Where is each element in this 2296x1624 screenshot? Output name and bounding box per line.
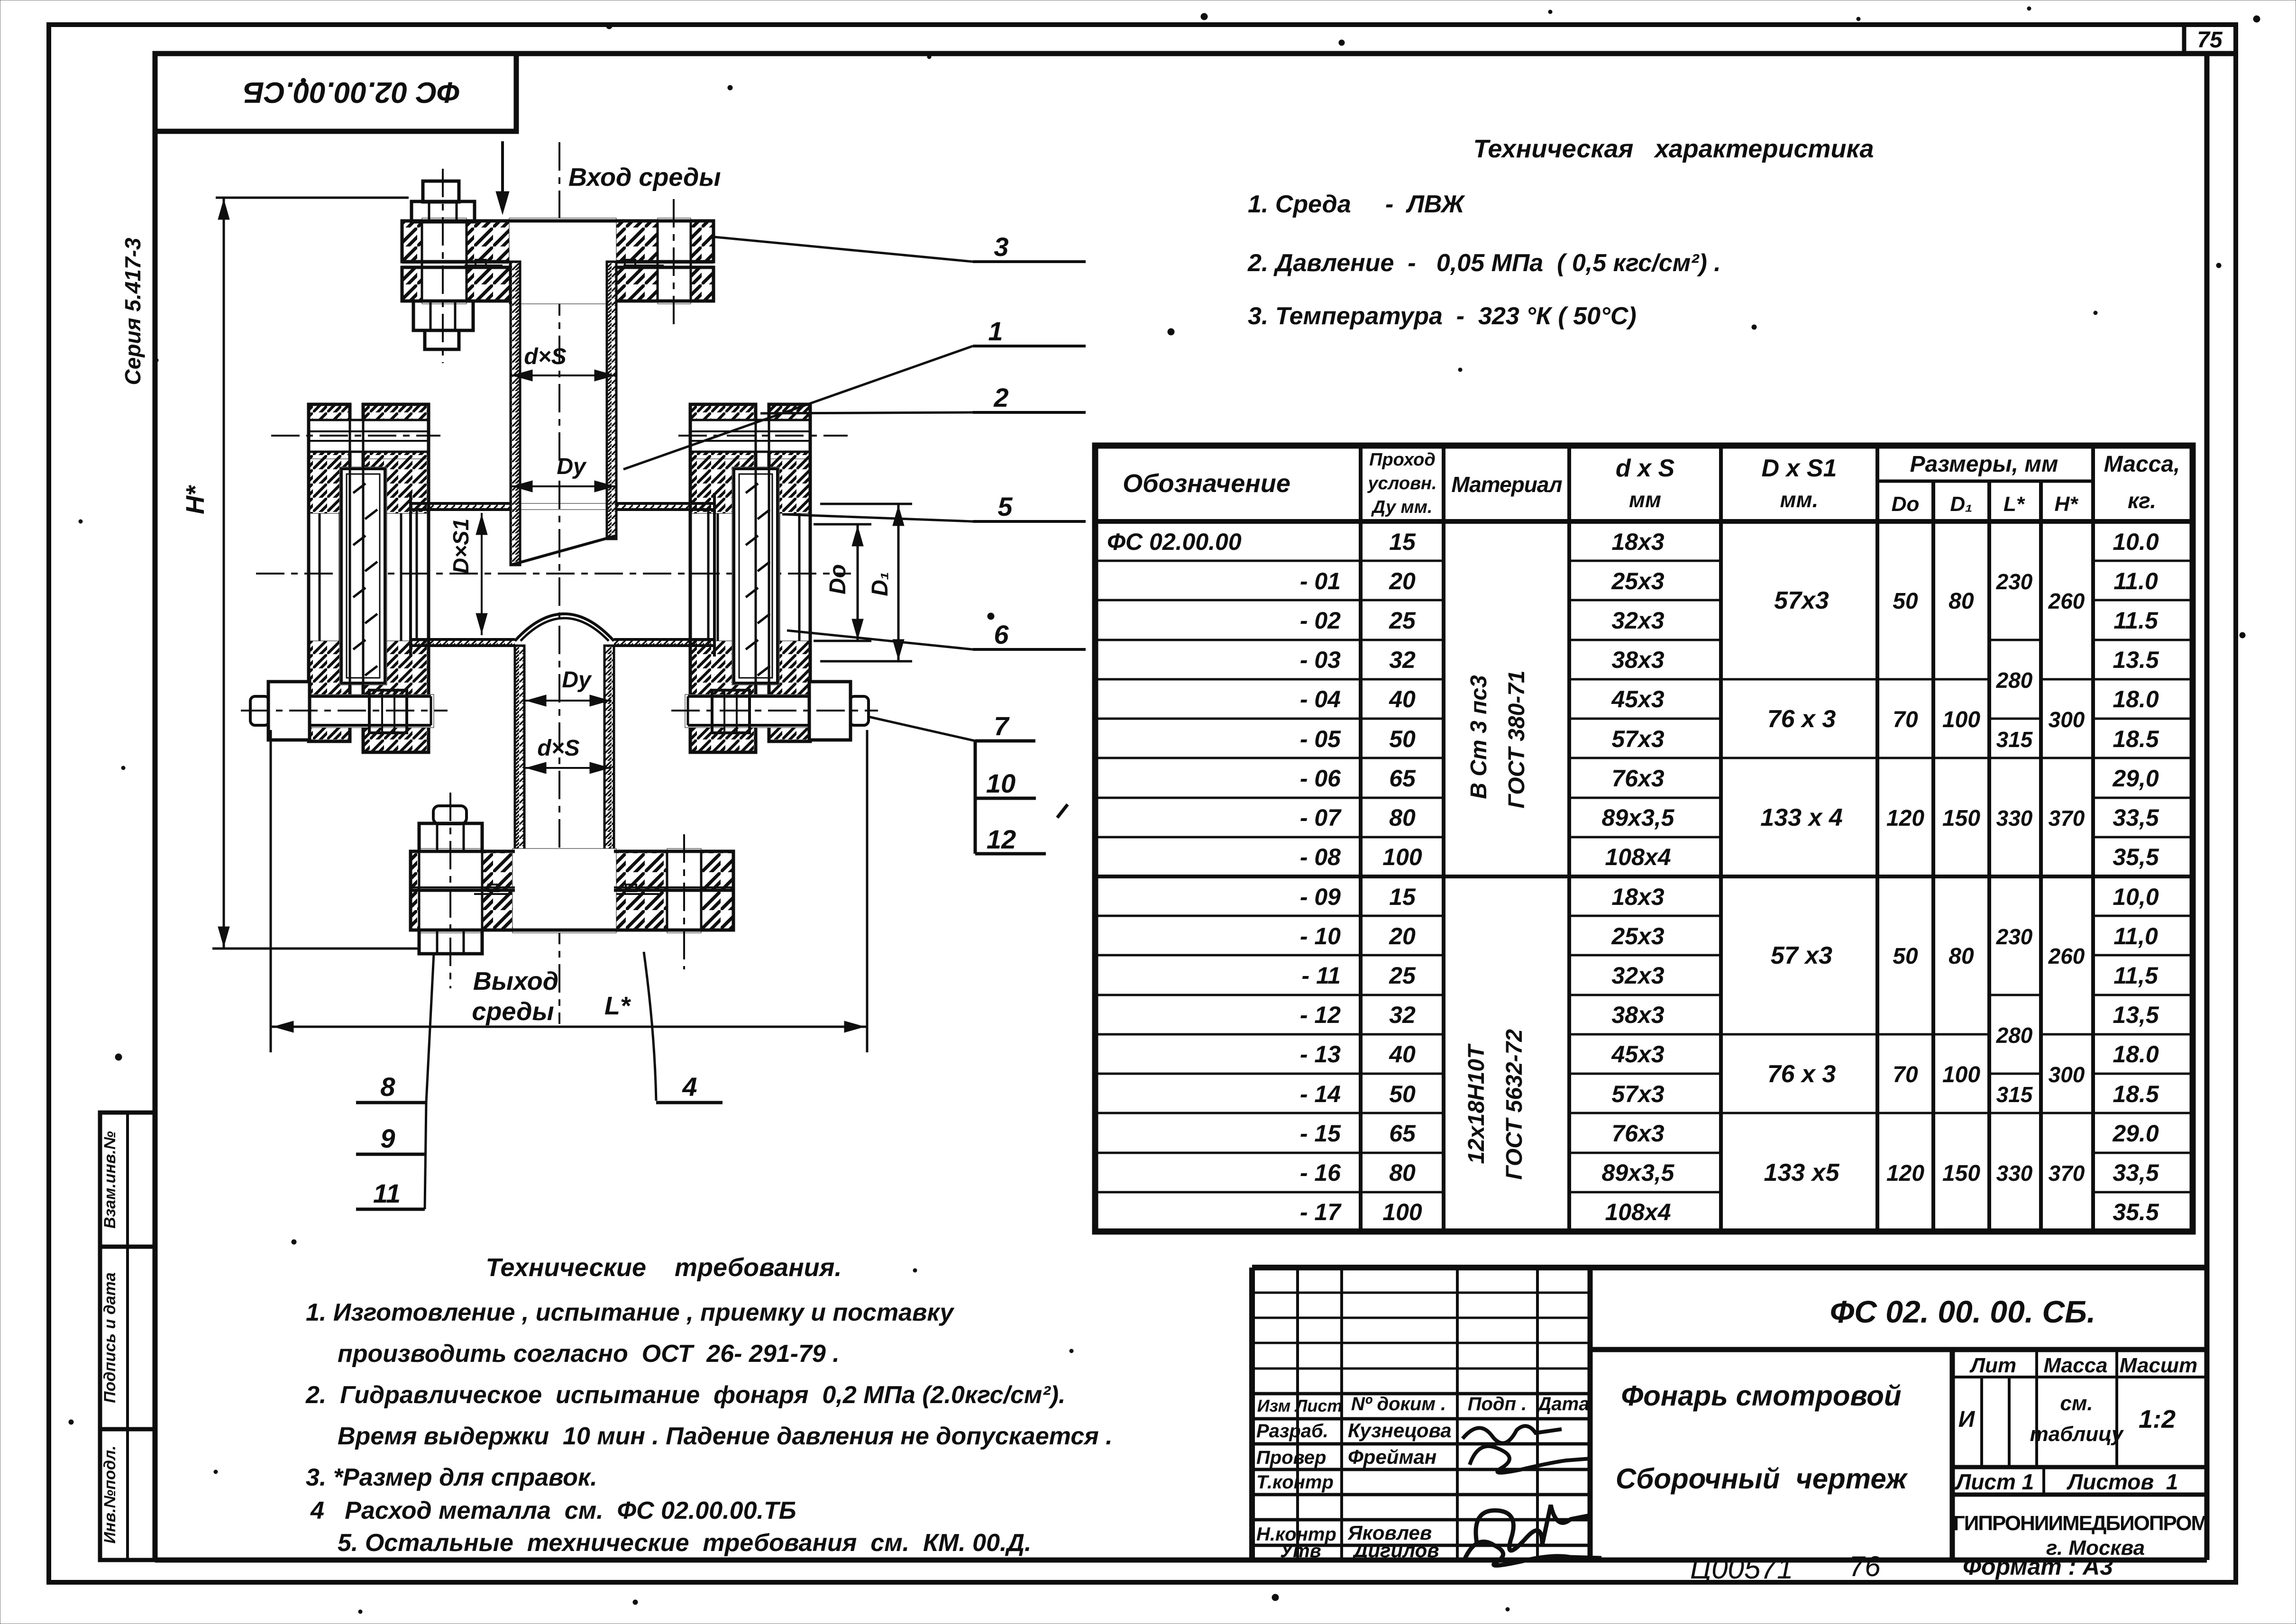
svg-text:50: 50 bbox=[1893, 589, 1918, 614]
svg-text:Разраб.: Разраб. bbox=[1256, 1421, 1328, 1442]
tech char line 1 bbox=[1248, 191, 1465, 218]
left cover flange (hatched bar) bbox=[309, 404, 350, 741]
svg-text:L*: L* bbox=[2003, 493, 2025, 516]
svg-text:33,5: 33,5 bbox=[2113, 1159, 2159, 1186]
svg-text:Лист: Лист bbox=[1294, 1396, 1343, 1415]
svg-text:150: 150 bbox=[1942, 806, 1980, 831]
svg-text:Выход: Выход bbox=[473, 967, 558, 995]
tech req line 7 bbox=[338, 1529, 1031, 1557]
svg-text:65: 65 bbox=[1389, 1120, 1416, 1147]
svg-text:57x3: 57x3 bbox=[1774, 587, 1829, 614]
top flange gasket lines bbox=[402, 260, 713, 266]
right glass window bbox=[732, 467, 779, 685]
svg-text:18.0: 18.0 bbox=[2113, 686, 2159, 712]
svg-text:45x3: 45x3 bbox=[1611, 1041, 1664, 1067]
svg-text:- 08: - 08 bbox=[1300, 844, 1341, 870]
svg-text:- 04: - 04 bbox=[1300, 686, 1341, 712]
svg-text:35,5: 35,5 bbox=[2113, 844, 2159, 870]
right side bolt through glass flange bbox=[671, 682, 878, 740]
svg-text:18.5: 18.5 bbox=[2113, 1081, 2159, 1107]
svg-text:75: 75 bbox=[2197, 27, 2223, 53]
svg-text:45x3: 45x3 bbox=[1611, 686, 1664, 712]
baffle dome above lower pipe bbox=[515, 614, 614, 641]
svg-text:таблицу: таблицу bbox=[2030, 1423, 2124, 1446]
table header labels bbox=[1123, 450, 2180, 517]
top flange upper ring (hatched, pos.3 area) bbox=[402, 218, 713, 304]
title block lit/massa/scale and sheet cells bbox=[1955, 1354, 2197, 1494]
svg-text:мм.: мм. bbox=[1780, 487, 1819, 512]
svg-text:18x3: 18x3 bbox=[1611, 529, 1664, 555]
svg-text:80: 80 bbox=[1948, 944, 1974, 969]
bottom flange rings (hatched) bbox=[411, 848, 733, 933]
tech requirements heading bbox=[486, 1253, 842, 1282]
svg-text:Утв: Утв bbox=[1280, 1541, 1321, 1561]
signature Кузнецова bbox=[1463, 1426, 1562, 1443]
svg-text:3. *Размер для справок.: 3. *Размер для справок. bbox=[306, 1464, 597, 1491]
svg-text:20: 20 bbox=[1389, 568, 1416, 594]
svg-text:ФС 02. 00. 00. СБ.: ФС 02. 00. 00. СБ. bbox=[1830, 1294, 2096, 1329]
svg-text:100: 100 bbox=[1942, 707, 1980, 732]
svg-text:Dо: Dо bbox=[825, 564, 851, 594]
svg-text:25x3: 25x3 bbox=[1611, 568, 1664, 594]
svg-text:Подпись и дата: Подпись и дата bbox=[101, 1272, 119, 1403]
top bolt M (left) bbox=[412, 181, 475, 349]
svg-text:Dо: Dо bbox=[1892, 493, 1920, 516]
svg-text:65: 65 bbox=[1389, 765, 1416, 792]
dim L* (overall length, bottom) bbox=[271, 730, 867, 1052]
svg-text:Nº доким .: Nº доким . bbox=[1351, 1394, 1446, 1414]
parts table grid bbox=[1095, 446, 2193, 1232]
dim dxS upper bbox=[511, 344, 615, 381]
svg-text:57x3: 57x3 bbox=[1611, 1081, 1664, 1107]
svg-text:13.5: 13.5 bbox=[2113, 647, 2159, 673]
svg-text:- 10: - 10 bbox=[1300, 923, 1341, 949]
bottom flange gasket lines bbox=[411, 885, 733, 894]
body horizontal pipe walls bbox=[411, 493, 714, 657]
svg-text:10: 10 bbox=[986, 768, 1015, 798]
svg-text:Подп .: Подп . bbox=[1468, 1394, 1527, 1414]
svg-text:57x3: 57x3 bbox=[1611, 726, 1664, 752]
svg-text:кг.: кг. bbox=[2128, 488, 2156, 513]
svg-text:18.5: 18.5 bbox=[2113, 726, 2159, 752]
svg-text:100: 100 bbox=[1942, 1062, 1980, 1087]
svg-text:370: 370 bbox=[2049, 1161, 2085, 1186]
svg-text:- 15: - 15 bbox=[1300, 1120, 1341, 1147]
svg-text:Лит: Лит bbox=[1969, 1354, 2016, 1377]
svg-text:57 x3: 57 x3 bbox=[1771, 942, 1832, 969]
svg-text:Т.контр: Т.контр bbox=[1256, 1472, 1334, 1493]
svg-text:5. Остальные технические тре: 5. Остальные технические требования см. … bbox=[338, 1529, 1031, 1557]
svg-text:- 09: - 09 bbox=[1300, 884, 1341, 910]
svg-text:3: 3 bbox=[994, 232, 1008, 262]
outlet label bbox=[472, 967, 558, 1026]
svg-text:29.0: 29.0 bbox=[2112, 1120, 2159, 1147]
svg-text:Ц00571: Ц00571 bbox=[1690, 1552, 1793, 1585]
svg-text:Формат : А3: Формат : А3 bbox=[1963, 1553, 2113, 1580]
upper pipe walls bbox=[511, 262, 616, 565]
svg-text:- 12: - 12 bbox=[1300, 1002, 1341, 1028]
callout 1 (inlet pipe) bbox=[623, 316, 1086, 469]
svg-text:- 05: - 05 bbox=[1300, 726, 1341, 752]
svg-text:315: 315 bbox=[1996, 1082, 2033, 1107]
svg-text:В Ст 3 пс3: В Ст 3 пс3 bbox=[1466, 675, 1491, 799]
svg-text:L*: L* bbox=[604, 992, 631, 1020]
callouts 8,9,11 ladder (bottom bolt set) bbox=[356, 954, 434, 1209]
svg-text:условн.: условн. bbox=[1367, 474, 1436, 493]
tech req line 2 bbox=[338, 1340, 840, 1368]
designation ФС 02.00.00.СБ. bbox=[1830, 1294, 2096, 1329]
svg-text:315: 315 bbox=[1996, 727, 2033, 752]
svg-text:ГИПРОНИИМЕДБИОПРОМ: ГИПРОНИИМЕДБИОПРОМ bbox=[1953, 1512, 2207, 1535]
svg-text:12: 12 bbox=[987, 824, 1016, 854]
svg-text:15: 15 bbox=[1389, 529, 1416, 555]
svg-text:230: 230 bbox=[1996, 924, 2033, 949]
bottom flange right hole axis bbox=[683, 834, 685, 969]
svg-text:Провер: Провер bbox=[1256, 1447, 1326, 1468]
signature Яковлев bbox=[1476, 1505, 1590, 1551]
left stack top gasket band + bolt hole axis bbox=[271, 404, 440, 752]
svg-text:300: 300 bbox=[2049, 707, 2085, 732]
svg-text:11.5: 11.5 bbox=[2113, 607, 2159, 634]
svg-text:производить согласно ОСТ 26-: производить согласно ОСТ 26- 291-79 . bbox=[338, 1340, 840, 1368]
svg-text:- 07: - 07 bbox=[1300, 804, 1342, 831]
svg-text:Масса: Масса bbox=[2043, 1354, 2107, 1377]
svg-text:50: 50 bbox=[1389, 726, 1416, 752]
svg-text:10.0: 10.0 bbox=[2113, 529, 2159, 555]
top-left stamp box (rotated designation) bbox=[155, 54, 516, 131]
svg-text:300: 300 bbox=[2049, 1062, 2085, 1087]
svg-text:35.5: 35.5 bbox=[2113, 1199, 2159, 1225]
svg-text:40: 40 bbox=[1389, 1041, 1416, 1067]
dim Dy lower bbox=[524, 667, 612, 706]
dim Dy upper bbox=[511, 454, 615, 492]
left glass window bbox=[339, 467, 387, 685]
callout 4 (bottom flange leader) bbox=[644, 952, 723, 1103]
tech req line 4 bbox=[338, 1423, 1113, 1450]
svg-text:9: 9 bbox=[380, 1123, 395, 1153]
title block grid bbox=[1252, 1268, 2207, 1560]
callouts 7,10,12 ladder (side bolt set) bbox=[869, 711, 1068, 854]
svg-text:H*: H* bbox=[181, 484, 210, 514]
inlet label and arrow bbox=[496, 141, 721, 214]
tech req line 3 bbox=[305, 1381, 1065, 1409]
lower pipe walls bbox=[505, 646, 623, 890]
bottom bolt (left) bbox=[419, 806, 482, 954]
svg-text:80: 80 bbox=[1389, 1159, 1416, 1186]
svg-text:11: 11 bbox=[373, 1178, 401, 1208]
svg-text:13,5: 13,5 bbox=[2113, 1002, 2159, 1028]
svg-text:см.: см. bbox=[2060, 1392, 2093, 1415]
svg-text:D x S1: D x S1 bbox=[1762, 455, 1837, 482]
dim dxS lower bbox=[524, 736, 612, 774]
svg-text:25: 25 bbox=[1389, 962, 1416, 989]
svg-text:- 17: - 17 bbox=[1300, 1199, 1342, 1225]
svg-text:Проход: Проход bbox=[1369, 450, 1436, 470]
dim D1 (right) bbox=[820, 504, 912, 661]
svg-text:33,5: 33,5 bbox=[2113, 804, 2159, 831]
svg-text:- 13: - 13 bbox=[1300, 1041, 1341, 1067]
svg-text:H*: H* bbox=[2055, 493, 2079, 516]
dim DxS1 vertical inside body bbox=[448, 513, 487, 635]
svg-text:32x3: 32x3 bbox=[1611, 962, 1664, 989]
svg-text:Время выдержки 10 мин . Паден: Время выдержки 10 мин . Падение давления… bbox=[338, 1423, 1113, 1450]
svg-text:Дигилов: Дигилов bbox=[1352, 1539, 1439, 1561]
svg-text:70: 70 bbox=[1893, 1062, 1918, 1087]
svg-text:среды: среды bbox=[472, 997, 554, 1026]
svg-text:25: 25 bbox=[1389, 607, 1416, 634]
svg-text:d x S: d x S bbox=[1616, 455, 1675, 482]
svg-text:6: 6 bbox=[994, 620, 1009, 649]
svg-text:мм: мм bbox=[1629, 487, 1661, 512]
svg-text:38x3: 38x3 bbox=[1611, 647, 1664, 673]
svg-text:260: 260 bbox=[2048, 944, 2085, 968]
svg-text:ФС 02.00.00.СБ: ФС 02.00.00.СБ bbox=[243, 76, 460, 109]
svg-text:ФС 02.00.00: ФС 02.00.00 bbox=[1107, 529, 1242, 555]
dim H* (overall height, left) bbox=[181, 198, 419, 949]
svg-text:Лист 1: Лист 1 bbox=[1955, 1469, 2034, 1494]
svg-text:Дата: Дата bbox=[1537, 1394, 1590, 1414]
svg-text:150: 150 bbox=[1942, 1161, 1980, 1186]
left side bolt through glass flange bbox=[241, 682, 448, 740]
svg-text:- 01: - 01 bbox=[1300, 568, 1341, 594]
organization bbox=[1953, 1512, 2207, 1560]
svg-text:11,5: 11,5 bbox=[2113, 962, 2159, 989]
svg-text:5: 5 bbox=[997, 492, 1013, 521]
svg-text:260: 260 bbox=[2048, 589, 2085, 613]
svg-text:D₁: D₁ bbox=[868, 572, 893, 596]
material rows 1-9 bbox=[1466, 670, 1529, 808]
callout 5 (glass) bbox=[782, 492, 1086, 521]
svg-text:1. Изготовление , испытание ,: 1. Изготовление , испытание , приемку и … bbox=[306, 1299, 955, 1326]
label Инв.№подл. bbox=[101, 1445, 119, 1543]
svg-text:Материал: Материал bbox=[1451, 472, 1562, 497]
svg-text:20: 20 bbox=[1389, 923, 1416, 949]
svg-text:Инв.№подл.: Инв.№подл. bbox=[101, 1445, 119, 1543]
svg-text:Фонарь смотровой: Фонарь смотровой bbox=[1621, 1380, 1901, 1412]
svg-text:133 x5: 133 x5 bbox=[1764, 1159, 1839, 1186]
label Подпись и дата bbox=[101, 1272, 119, 1403]
svg-text:76 x 3: 76 x 3 bbox=[1767, 705, 1836, 733]
svg-text:100: 100 bbox=[1382, 844, 1422, 870]
tech characteristics heading bbox=[1473, 135, 1874, 163]
svg-text:8: 8 bbox=[380, 1072, 395, 1102]
material rows 10-18 bbox=[1464, 1029, 1527, 1180]
svg-text:100: 100 bbox=[1382, 1199, 1422, 1225]
tech req line 6 bbox=[310, 1497, 796, 1524]
callout 6 (gasket) bbox=[787, 620, 1086, 649]
svg-text:15: 15 bbox=[1389, 884, 1416, 910]
svg-text:Кузнецова: Кузнецова bbox=[1348, 1419, 1452, 1442]
tech req line 5 bbox=[306, 1464, 597, 1491]
page number box 75 bbox=[2184, 27, 2223, 54]
left margin strip boxes bbox=[100, 1113, 155, 1560]
svg-text:18.0: 18.0 bbox=[2113, 1041, 2159, 1067]
series label bbox=[120, 209, 154, 417]
svg-text:2. Гидравлическое испытание: 2. Гидравлическое испытание фонаря 0,2 М… bbox=[305, 1381, 1065, 1409]
table merged dimension values bbox=[1760, 569, 2085, 1186]
svg-text:- 03: - 03 bbox=[1300, 647, 1341, 673]
svg-text:29,0: 29,0 bbox=[2112, 765, 2159, 792]
svg-text:- 02: - 02 bbox=[1300, 607, 1341, 634]
svg-text:1:2: 1:2 bbox=[2139, 1405, 2176, 1433]
svg-text:11.0: 11.0 bbox=[2113, 568, 2158, 594]
svg-text:76x3: 76x3 bbox=[1611, 1120, 1664, 1147]
svg-text:32: 32 bbox=[1389, 1002, 1416, 1028]
svg-text:120: 120 bbox=[1886, 1161, 1924, 1186]
svg-text:- 16: - 16 bbox=[1300, 1159, 1341, 1186]
svg-text:Техническая характеристика: Техническая характеристика bbox=[1473, 135, 1874, 163]
svg-text:18x3: 18x3 bbox=[1611, 884, 1664, 910]
svg-text:50: 50 bbox=[1893, 944, 1918, 969]
svg-text:- 06: - 06 bbox=[1300, 765, 1341, 792]
title block left labels and names bbox=[1256, 1394, 1589, 1561]
left body flange (hatched bar) bbox=[363, 404, 429, 752]
svg-text:ГОСТ 5632-72: ГОСТ 5632-72 bbox=[1502, 1029, 1527, 1180]
svg-text:2. Давление - 0,05 МПа ( 0: 2. Давление - 0,05 МПа ( 0,5 кгс/см²) . bbox=[1247, 249, 1721, 277]
svg-text:Ду мм.: Ду мм. bbox=[1371, 497, 1433, 517]
svg-text:Dy: Dy bbox=[557, 454, 587, 479]
svg-text:2: 2 bbox=[993, 383, 1008, 412]
svg-text:Фрейман: Фрейман bbox=[1348, 1446, 1436, 1468]
svg-text:76: 76 bbox=[1849, 1551, 1881, 1582]
svg-text:76 x 3: 76 x 3 bbox=[1767, 1060, 1836, 1088]
callout 2 (glass cover flange) bbox=[760, 383, 1086, 413]
svg-text:80: 80 bbox=[1948, 589, 1974, 614]
inventory number handwritten bbox=[1690, 1551, 1881, 1585]
svg-text:d×S: d×S bbox=[537, 736, 579, 761]
svg-text:Листов 1: Листов 1 bbox=[2067, 1469, 2178, 1494]
label Взам.инв.№ bbox=[101, 1131, 119, 1229]
svg-text:Размеры, мм: Размеры, мм bbox=[1910, 452, 2058, 477]
svg-text:330: 330 bbox=[1996, 1161, 2033, 1186]
svg-text:Вход среды: Вход среды bbox=[568, 163, 721, 192]
svg-text:- 14: - 14 bbox=[1300, 1081, 1341, 1107]
svg-text:108x4: 108x4 bbox=[1605, 1199, 1671, 1225]
right stack top gasket band + bolt hole axis bbox=[678, 404, 848, 752]
tech char line 3 bbox=[1248, 302, 1637, 330]
svg-text:Обозначение: Обозначение bbox=[1123, 469, 1290, 498]
svg-text:D×S1: D×S1 bbox=[448, 519, 473, 574]
svg-text:32: 32 bbox=[1389, 647, 1416, 673]
svg-text:12х18Н10Т: 12х18Н10Т bbox=[1464, 1043, 1489, 1164]
svg-text:Dy: Dy bbox=[562, 667, 592, 693]
svg-text:230: 230 bbox=[1996, 569, 2033, 594]
format A3 bbox=[1963, 1553, 2113, 1580]
svg-text:3. Температура - 323 °К ( 50: 3. Температура - 323 °К ( 50°С) bbox=[1248, 302, 1637, 330]
svg-text:Взам.инв.№: Взам.инв.№ bbox=[101, 1131, 119, 1229]
svg-text:Изм: Изм bbox=[1257, 1396, 1290, 1415]
svg-text:280: 280 bbox=[1996, 1023, 2033, 1048]
right body flange (hatched bar) bbox=[690, 404, 756, 752]
svg-text:1: 1 bbox=[988, 316, 1003, 346]
svg-text:10,0: 10,0 bbox=[2113, 884, 2159, 910]
svg-text:80: 80 bbox=[1389, 804, 1416, 831]
svg-text:d×S: d×S bbox=[524, 344, 566, 369]
svg-text:7: 7 bbox=[994, 711, 1010, 741]
svg-text:- 11: - 11 bbox=[1302, 962, 1341, 989]
drawing name bbox=[1616, 1380, 1908, 1495]
svg-text:Сборочный чертеж: Сборочный чертеж bbox=[1616, 1463, 1908, 1495]
signature Дигилов bbox=[1465, 1542, 1601, 1565]
svg-text:38x3: 38x3 bbox=[1611, 1002, 1664, 1028]
svg-text:108x4: 108x4 bbox=[1605, 844, 1671, 870]
svg-text:120: 120 bbox=[1886, 806, 1924, 831]
svg-text:4: 4 bbox=[682, 1072, 697, 1102]
table values (designation, Du, dxS, mass) bbox=[1107, 529, 2159, 1225]
svg-text:Серия 5.417-3: Серия 5.417-3 bbox=[120, 237, 145, 385]
svg-text:11,0: 11,0 bbox=[2113, 923, 2158, 949]
svg-text:D₁: D₁ bbox=[1950, 493, 1972, 516]
svg-text:70: 70 bbox=[1893, 707, 1918, 732]
dim Do (right) bbox=[814, 524, 871, 641]
svg-text:4 Расход металла см. ФС 02: 4 Расход металла см. ФС 02.00.00.ТБ bbox=[310, 1497, 796, 1524]
svg-text:76x3: 76x3 bbox=[1611, 765, 1664, 792]
top bolt axis bbox=[442, 169, 444, 363]
main vertical centerline bbox=[558, 142, 560, 1024]
svg-text:1. Среда - ЛВЖ: 1. Среда - ЛВЖ bbox=[1248, 191, 1465, 218]
svg-text:И: И bbox=[1958, 1407, 1976, 1432]
right cover flange (hatched bar) bbox=[769, 404, 810, 741]
svg-text:ГОСТ 380-71: ГОСТ 380-71 bbox=[1504, 670, 1529, 808]
svg-text:89x3,5: 89x3,5 bbox=[1602, 1159, 1675, 1186]
svg-text:89x3,5: 89x3,5 bbox=[1602, 804, 1675, 831]
tech char line 2 bbox=[1247, 249, 1721, 277]
svg-text:32x3: 32x3 bbox=[1611, 607, 1664, 634]
svg-text:25x3: 25x3 bbox=[1611, 923, 1664, 949]
svg-text:133 x 4: 133 x 4 bbox=[1760, 804, 1843, 831]
signature Фрейман bbox=[1470, 1446, 1591, 1473]
callout 3 (top flange) bbox=[715, 232, 1086, 262]
top flange right hole axis bbox=[673, 199, 675, 327]
svg-text:Технические требования.: Технические требования. bbox=[486, 1253, 842, 1282]
svg-text:330: 330 bbox=[1996, 806, 2033, 830]
svg-text:Масса,: Масса, bbox=[2104, 452, 2180, 477]
svg-text:Масшт: Масшт bbox=[2120, 1354, 2197, 1377]
svg-text:370: 370 bbox=[2049, 806, 2085, 830]
main horizontal centerline bbox=[256, 573, 851, 575]
svg-text:280: 280 bbox=[1996, 668, 2033, 693]
svg-text:50: 50 bbox=[1389, 1081, 1416, 1107]
svg-text:40: 40 bbox=[1389, 686, 1416, 712]
tech req line 1 bbox=[306, 1299, 955, 1326]
bottom bolt axis bbox=[449, 793, 451, 988]
